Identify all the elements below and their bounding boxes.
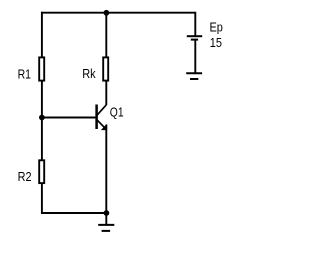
svg-text:R1: R1 [18, 66, 31, 81]
node base junction [39, 115, 45, 121]
resistor R1 [18, 57, 45, 81]
ground bottom center [98, 213, 114, 231]
svg-text:R2: R2 [18, 169, 32, 184]
wire left vertical middle [41, 82, 43, 161]
svg-text:15: 15 [210, 35, 222, 50]
node top junction [104, 10, 110, 16]
ground right [186, 73, 202, 79]
wire right vertical [194, 12, 196, 36]
transistor Q1 [97, 105, 124, 130]
svg-text:Ep: Ep [210, 20, 223, 35]
wire emitter vertical [105, 125, 107, 213]
wire bottom rail [41, 212, 107, 214]
svg-text:Q1: Q1 [110, 105, 124, 120]
wire base [42, 117, 96, 119]
resistor Rk [82, 57, 108, 81]
node bottom junction [104, 210, 110, 216]
wire middle vertical top [105, 12, 107, 57]
resistor R2 [18, 160, 45, 184]
wire top rail [41, 12, 195, 14]
wire left vertical bottom [41, 184, 43, 214]
wire battery to ground [194, 40, 196, 74]
wire left vertical top [41, 12, 43, 57]
battery Ep [187, 20, 223, 50]
svg-text:Rk: Rk [82, 66, 96, 81]
wire collector vertical [105, 82, 107, 106]
